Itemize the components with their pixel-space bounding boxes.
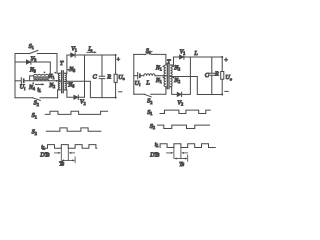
winding N2 bottom (secondary)	[170, 76, 172, 87]
diode V1	[71, 53, 75, 57]
arrow DTs left	[183, 152, 188, 154]
svg-text:S2: S2	[34, 100, 39, 107]
svg-text:N1: N1	[155, 66, 162, 72]
svg-text:V3: V3	[31, 56, 37, 62]
svg-text:Uo: Uo	[225, 74, 232, 81]
svg-text:Ui: Ui	[135, 80, 141, 87]
wire primary bottom to S2	[58, 90, 61, 98]
switch S1	[29, 50, 38, 53]
wire secondary bottom to V2	[170, 87, 177, 95]
svg-text:S2: S2	[150, 123, 155, 130]
svg-text:Io: Io	[87, 46, 92, 52]
marker DTs verticals	[174, 148, 181, 159]
waveform S2	[46, 128, 101, 131]
svg-text:N1: N1	[48, 74, 55, 80]
svg-text:Ui: Ui	[20, 84, 26, 91]
svg-text:iL: iL	[155, 142, 160, 148]
diode V2	[74, 95, 78, 99]
battery Ui	[15, 80, 21, 82]
svg-text:C: C	[93, 74, 98, 81]
svg-text:L: L	[193, 50, 198, 57]
dot N1 bottom	[162, 77, 164, 79]
current arrow iL	[36, 83, 43, 85]
node output top	[221, 56, 223, 58]
inductor L	[144, 74, 155, 76]
waveform S1	[45, 111, 107, 114]
svg-text:R: R	[214, 71, 219, 78]
dot N2 top	[173, 65, 175, 67]
svg-text:S1: S1	[29, 43, 34, 50]
wire secondary top to V1	[65, 55, 71, 73]
svg-text:iL: iL	[41, 144, 46, 150]
waveform S2	[158, 125, 210, 128]
dot N6	[67, 82, 69, 84]
svg-text:N4: N4	[28, 85, 35, 91]
arrow DTs right	[167, 152, 172, 154]
arrow DTs right	[55, 152, 60, 154]
svg-text:N1: N1	[155, 78, 162, 84]
svg-text:L: L	[145, 79, 150, 86]
wire secondary bottom to V2	[65, 90, 74, 97]
dot N5	[68, 69, 70, 71]
battery Ui	[134, 75, 137, 77]
waveform iL	[160, 144, 215, 148]
winding N1 (primary top)	[58, 73, 60, 81]
dot choke main	[32, 82, 34, 84]
switch S1	[145, 52, 152, 55]
wire secondary top to V1	[170, 57, 179, 65]
marker Ts span	[175, 158, 186, 160]
svg-text:DTs: DTs	[39, 152, 50, 158]
capacitor C	[211, 57, 213, 95]
svg-text:V2: V2	[80, 100, 86, 106]
svg-text:S2: S2	[32, 129, 37, 136]
dot N2 bottom	[173, 77, 175, 79]
wire left rail	[133, 54, 135, 94]
switch S2	[144, 94, 151, 97]
svg-text:+: +	[224, 58, 228, 64]
svg-text:Ts: Ts	[179, 162, 185, 168]
wire V2 riser to + rail	[78, 55, 84, 97]
svg-text:N3: N3	[29, 67, 36, 73]
minus sign	[225, 90, 228, 92]
dot N1 top	[162, 65, 164, 67]
node battery-primary junction	[56, 80, 58, 82]
choke core	[34, 77, 49, 78]
wire top	[134, 53, 145, 55]
diode V3 (clamp)	[15, 61, 26, 63]
dot N1	[54, 72, 56, 74]
svg-text:S2: S2	[147, 98, 152, 105]
resistor R	[221, 57, 223, 95]
svg-text:N5: N5	[68, 67, 75, 73]
winding N1 bottom (primary)	[164, 76, 166, 87]
svg-text:S1: S1	[146, 48, 151, 55]
svg-text:S1: S1	[32, 112, 37, 119]
svg-text:+: +	[117, 58, 121, 64]
node output bottom	[115, 97, 117, 99]
svg-text:DTs: DTs	[149, 153, 160, 159]
wire bottom with switch S2	[15, 97, 33, 99]
dot choke N3	[44, 72, 46, 74]
svg-text:S1: S1	[147, 109, 152, 116]
wire left rail	[14, 54, 16, 98]
transformer T core	[62, 71, 64, 93]
wire bottom with switch S2	[134, 93, 145, 95]
svg-text:iL: iL	[37, 87, 42, 93]
minus sign	[119, 91, 122, 93]
svg-text:V2: V2	[177, 101, 183, 107]
marker DTs verticals	[61, 148, 68, 160]
transformer T core	[167, 63, 169, 88]
marker Ts span	[63, 159, 74, 161]
diode V1	[179, 55, 183, 59]
node output top	[115, 54, 117, 56]
switch S2	[33, 98, 41, 101]
wire center tap return	[65, 81, 116, 97]
wire V2 riser to + rail	[182, 57, 191, 94]
winding N2 (primary bottom)	[58, 82, 60, 90]
svg-text:V1: V1	[180, 49, 186, 55]
waveform S1	[160, 110, 210, 113]
winding N5 (secondary top)	[65, 73, 67, 81]
diode V2	[177, 92, 181, 96]
inductor winding L (choke main, on battery wire)	[34, 79, 49, 81]
winding N6 (secondary bottom)	[65, 82, 67, 90]
winding N1 top (primary)	[164, 65, 166, 76]
svg-text:V1: V1	[71, 47, 77, 53]
wire top	[15, 53, 29, 55]
wire N3 left bracket	[30, 76, 34, 81]
capacitor C	[101, 55, 103, 98]
wire center tap return	[170, 77, 222, 95]
svg-text:Uo: Uo	[118, 74, 125, 81]
svg-text:N2: N2	[173, 78, 180, 84]
svg-text:Ts: Ts	[59, 162, 65, 168]
inductor winding N3 (coupled choke upper)	[34, 74, 49, 76]
waveform iL	[45, 145, 97, 149]
arrow DTs left	[70, 152, 74, 154]
svg-text:R: R	[106, 74, 111, 81]
svg-text:T: T	[167, 59, 171, 65]
current arrow Io	[87, 51, 95, 53]
resistor R	[115, 55, 117, 98]
svg-text:T: T	[60, 61, 64, 67]
svg-text:N2: N2	[48, 83, 55, 89]
winding N2 top (secondary)	[170, 65, 172, 76]
node output bottom	[221, 94, 223, 96]
